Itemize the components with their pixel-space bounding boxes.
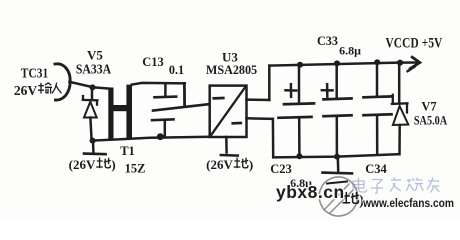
wire +5V top rail [269, 63, 417, 66]
watermark elecfans logo chars [353, 178, 440, 194]
svg-text:C34: C34 [365, 162, 387, 176]
svg-text:T1: T1 [120, 144, 135, 158]
svg-text:SA5.0A: SA5.0A [414, 115, 448, 128]
ground (26V地) under V5 [84, 141, 106, 154]
diode V7 (TVS) [392, 63, 408, 155]
transformer T1 winding left [108, 88, 113, 141]
capacitor C13 stub top [164, 83, 167, 95]
svg-text:MSA2805: MSA2805 [206, 63, 257, 77]
svg-text:C23: C23 [270, 162, 292, 176]
svg-text:TC31: TC31 [21, 66, 48, 81]
diode V5 (TVS) [83, 87, 98, 140]
svg-text:C13: C13 [142, 55, 164, 69]
capacitor C33 (polarized) [322, 63, 352, 156]
capacitor C13 stub bottom [164, 120, 167, 137]
connector TC31 [55, 64, 70, 100]
wire ground bottom rail [273, 154, 399, 157]
wire bottom rail V5 to U3 [93, 137, 210, 141]
ground (26V地) under U3 [221, 137, 238, 156]
node junction dot C34 column [374, 59, 380, 65]
node VCCD +5V output arrow [410, 57, 420, 68]
svg-text:): ) [111, 157, 115, 172]
wire top rail T1 to C13 [132, 83, 185, 85]
svg-text:0.1: 0.1 [169, 63, 184, 77]
wire U3 +out [247, 98, 270, 101]
svg-text:www.elecfans.com: www.elecfans.com [362, 197, 454, 210]
node junction at V5 top [90, 84, 96, 90]
node junction dot C23 column [297, 62, 303, 68]
svg-text:SA33A: SA33A [76, 62, 112, 77]
label 26V输入 [14, 83, 61, 98]
transformer T1 core bridge [112, 105, 127, 111]
node junction dot C33 column [334, 60, 340, 66]
svg-text:VCCD +5V: VCCD +5V [385, 34, 442, 51]
ground chassis symbol [315, 157, 362, 220]
svg-text:): ) [249, 157, 253, 172]
capacitor C13 plate mid wire to U3 [153, 104, 212, 111]
svg-text:V5: V5 [87, 48, 103, 63]
capacitor C34 [364, 62, 392, 154]
svg-text:C33: C33 [317, 34, 338, 48]
wire input to V5 [70, 82, 94, 87]
capacitor C23 (polarized) [279, 65, 315, 156]
node junction dot ground rail at C33 [334, 154, 340, 160]
node junction at V5 bottom [90, 138, 96, 144]
svg-text:ybx8.cn: ybx8.cn [276, 182, 345, 202]
svg-text:V7: V7 [421, 100, 436, 114]
svg-text:(26V: (26V [206, 157, 233, 172]
converter module U3 [210, 86, 247, 137]
label (地) [343, 193, 364, 209]
node junction dot ground rail at C23 [296, 153, 302, 159]
label (26V地) under U3 [206, 157, 253, 172]
transformer T1 winding right [126, 85, 132, 140]
label (26V地) [69, 157, 116, 172]
wire riser to ground rail [272, 119, 275, 157]
wire top rail V5 to T1 [93, 87, 111, 88]
node junction dot V7 column [397, 60, 403, 66]
node junction bottom rail at C13 [157, 133, 164, 140]
wire vertical top rail to mid wire [183, 83, 186, 106]
svg-text:26V: 26V [14, 83, 38, 98]
capacitor C13 plate top [155, 95, 177, 98]
svg-text:6.8μ: 6.8μ [339, 44, 361, 58]
wire U3 -out [247, 117, 273, 120]
svg-text:15Z: 15Z [125, 162, 146, 176]
svg-text:(26V: (26V [69, 157, 96, 172]
wire riser to +5V rail [268, 66, 271, 100]
capacitor C13 plate low [152, 118, 174, 121]
